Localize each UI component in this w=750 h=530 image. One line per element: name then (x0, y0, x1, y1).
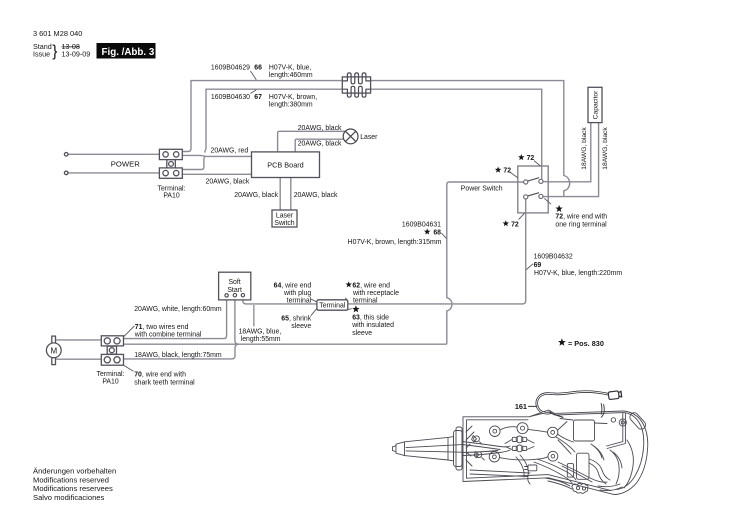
svg-text:Fig. /Abb. 3: Fig. /Abb. 3 (102, 47, 155, 58)
svg-text:PA10: PA10 (102, 378, 119, 385)
svg-text:with plug: with plug (283, 290, 311, 297)
tool small armature hatch (466, 426, 474, 466)
svg-text:Issue: Issue (33, 50, 50, 59)
svg-text:H07V-K, brown,: H07V-K, brown, (269, 94, 317, 101)
svg-text:with combine terminal: with combine terminal (134, 332, 202, 339)
svg-text:sleeve: sleeve (352, 330, 372, 337)
svg-text:Start: Start (227, 287, 242, 294)
svg-text:Terminal: Terminal (319, 302, 346, 309)
leader 72 ring (544, 198, 551, 204)
svg-text:H07V-K, brown, length:315mm: H07V-K, brown, length:315mm (348, 239, 442, 246)
svg-text:Soft: Soft (228, 279, 240, 286)
leader 63 (348, 309, 352, 310)
PCB board box (252, 152, 320, 178)
svg-text:70, wire end with: 70, wire end with (134, 372, 186, 379)
svg-text:20AWG, black: 20AWG, black (294, 192, 338, 199)
leader 70 (124, 365, 134, 371)
wire brown 380mm inner loop (205, 89, 542, 179)
tool nose cone (405, 437, 454, 461)
supply cable 161 (515, 391, 622, 418)
wire 20AWG white motor to soft start (124, 297, 227, 338)
motor PA10 middle (107, 346, 116, 354)
tool wire squiggles (556, 437, 575, 454)
tool boss top-right (548, 427, 558, 437)
svg-text:64, wire end: 64, wire end (274, 282, 312, 289)
wire PCB to laser switch right (290, 178, 292, 211)
leader 66 (251, 71, 257, 80)
svg-text:68: 68 (433, 230, 441, 237)
svg-text:20AWG, white, length:60mm: 20AWG, white, length:60mm (134, 306, 222, 313)
cable hook inside body (601, 404, 604, 418)
svg-text:H07V-K, blue,: H07V-K, blue, (269, 65, 312, 72)
leader 68 (442, 233, 447, 239)
svg-text:Modifications reserved: Modifications reserved (33, 475, 109, 484)
svg-text:67: 67 (254, 94, 262, 101)
tool boss bottom-left (489, 452, 499, 462)
tool interior compartment (560, 413, 625, 449)
svg-text:PA10: PA10 (163, 193, 180, 200)
label 72 ring terminal (555, 205, 562, 212)
tool small plug (528, 465, 537, 471)
svg-text:20AWG, black: 20AWG, black (234, 192, 278, 199)
svg-text:Salvo modificaciones: Salvo modificaciones (33, 493, 105, 502)
motor PA10 block1 (101, 336, 123, 346)
label 62 receptacle (345, 281, 351, 287)
wire PCB to laser second (295, 139, 344, 152)
capacitor box (588, 87, 602, 122)
svg-text:length:55mm: length:55mm (241, 336, 281, 343)
svg-text:18AWG, blue,: 18AWG, blue, (239, 329, 282, 336)
svg-text:1609B04632: 1609B04632 (534, 254, 573, 261)
tool link bands (500, 422, 574, 460)
svg-text:Terminal:: Terminal: (158, 185, 186, 192)
leader 72 bottom (519, 213, 525, 219)
svg-text:20AWG, black: 20AWG, black (206, 179, 250, 186)
svg-text:72: 72 (527, 155, 535, 162)
svg-text:20AWG, red: 20AWG, red (211, 148, 249, 155)
wire bundle trunk to brown riser (124, 343, 447, 345)
leader 62 (345, 298, 348, 301)
leader 69 (526, 264, 533, 270)
svg-text:1609B04629: 1609B04629 (211, 65, 250, 72)
svg-text:with receptacle: with receptacle (352, 290, 399, 297)
leader 71 (124, 326, 135, 337)
leader 72 top (534, 161, 541, 167)
svg-text:Laser: Laser (360, 134, 378, 141)
label star 72 left (495, 167, 501, 173)
svg-text:18AWG, black: 18AWG, black (581, 127, 588, 170)
motor circle (46, 343, 61, 358)
svg-text:161: 161 (515, 402, 527, 411)
svg-text:Power Switch: Power Switch (461, 185, 503, 192)
laser lamp (343, 129, 358, 144)
svg-text:1609B04631: 1609B04631 (402, 221, 441, 228)
wire blue 220mm soft start pin3 to terminal to switch (243, 199, 526, 304)
wire 20AWG red with bundle brace (182, 155, 251, 156)
svg-text:M: M (50, 346, 57, 355)
wire brown riser with hop (447, 182, 518, 344)
wire PCB to laser top (278, 131, 346, 152)
leader 65 (311, 309, 317, 316)
label star pos 830 (558, 338, 566, 345)
tool rear arcs (613, 411, 648, 495)
wire power lead top (68, 153, 159, 155)
tool cord grip capsule (628, 411, 647, 431)
leader 64 (311, 299, 317, 302)
svg-text:one ring terminal: one ring terminal (555, 221, 607, 228)
svg-text:20AWG, black: 20AWG, black (298, 141, 342, 148)
svg-text:terminal: terminal (287, 297, 312, 304)
power switch box (518, 166, 548, 213)
figure label box (97, 43, 156, 59)
tool flange (454, 431, 463, 467)
label star 72 top (518, 154, 524, 160)
svg-text:71, two wires end: 71, two wires end (135, 324, 189, 331)
terminal box mid (317, 300, 348, 310)
svg-text:POWER: POWER (111, 159, 140, 168)
svg-text:Modifications reservees: Modifications reservees (33, 484, 113, 493)
svg-text:shark teeth terminal: shark teeth terminal (134, 379, 195, 386)
terminal PA10 power block1 (159, 149, 182, 159)
svg-text:63, this side: 63, this side (352, 314, 389, 321)
tool armature band (406, 442, 510, 456)
svg-text:18AWG, black, length:75mm: 18AWG, black, length:75mm (134, 352, 222, 359)
tool boss top-mid (517, 423, 528, 434)
svg-text:1609B04630: 1609B04630 (211, 94, 250, 101)
terminal PA10 power block2 (159, 168, 182, 178)
svg-text:62, wire end: 62, wire end (352, 282, 390, 289)
svg-text:terminal: terminal (353, 297, 378, 304)
svg-text:PCB Board: PCB Board (267, 160, 304, 169)
leader 67 (251, 90, 257, 94)
svg-text:H07V-K, blue, length:220mm: H07V-K, blue, length:220mm (534, 270, 622, 277)
wire 18AWG black 75mm from motor block2 (124, 344, 239, 359)
leader 18AWG blue 55mm (253, 305, 255, 326)
svg-text:13-09-09: 13-09-09 (62, 50, 91, 59)
svg-text:length:460mm: length:460mm (269, 72, 313, 79)
svg-text:65, shrink: 65, shrink (281, 315, 311, 322)
svg-text:length:380mm: length:380mm (269, 102, 313, 109)
svg-text:72: 72 (511, 221, 519, 228)
tool boss top-left (490, 426, 501, 437)
ferrite connector body (342, 77, 370, 93)
svg-text:Änderungen vorbehalten: Änderungen vorbehalten (33, 467, 116, 476)
wire motor lead top (56, 339, 102, 341)
svg-text:72: 72 (503, 168, 511, 175)
tool screw flag left2 (476, 452, 482, 458)
svg-text:69: 69 (534, 262, 542, 269)
svg-text:}: } (52, 43, 57, 60)
wire soft start pin2 drop (235, 297, 239, 344)
tool spindle tip (393, 442, 405, 456)
svg-text:Laser: Laser (276, 212, 294, 219)
svg-text:with insulated: with insulated (351, 322, 394, 329)
tool brush cluster (512, 437, 517, 441)
svg-text:= Pos. 830: = Pos. 830 (568, 339, 604, 348)
wire 20AWG black lower to PCB (182, 173, 251, 175)
motor PA10 block2 (101, 354, 123, 365)
svg-text:Capacitor: Capacitor (592, 90, 599, 119)
tool rear screw rings (611, 418, 615, 422)
svg-text:sleeve: sleeve (291, 323, 311, 330)
svg-text:72, wire end with: 72, wire end with (555, 214, 607, 221)
ferrite winding top (343, 73, 370, 97)
svg-text:66: 66 (254, 65, 262, 72)
leader 72 left (510, 172, 517, 177)
tool field block (574, 420, 595, 441)
cable connector (608, 391, 622, 400)
wire motor lead bottom (56, 358, 102, 360)
tool housing outline (463, 410, 624, 494)
tool screw flag left1 (474, 436, 480, 442)
ferrite winding bottom (343, 86, 370, 97)
tool housing inner wall (467, 420, 612, 491)
power switch internals (518, 166, 549, 213)
svg-text:18AWG, black: 18AWG, black (602, 127, 609, 170)
motor stub top (52, 336, 56, 343)
label 63 insulated sleeve (352, 305, 359, 312)
wire capacitor lead right (543, 123, 599, 197)
wire blue 460mm outer loop (183, 81, 570, 197)
svg-text:20AWG, black: 20AWG, black (298, 125, 342, 132)
svg-text:3 601 M28 040: 3 601 M28 040 (33, 29, 82, 38)
label star 72 bottom (503, 220, 509, 226)
soft start box (219, 272, 251, 300)
laser switch box (272, 210, 297, 227)
svg-text:Terminal:: Terminal: (97, 371, 125, 378)
motor stub bottom (52, 357, 56, 364)
wire power lead bottom (68, 172, 160, 174)
wire capacitor lead left (548, 123, 591, 182)
svg-text:Switch: Switch (274, 220, 294, 227)
power lead open terminal top (64, 153, 68, 157)
wire PCB to laser switch left (279, 178, 281, 211)
terminal PA10 power middle (167, 160, 176, 168)
tool bottom cluster (572, 483, 588, 493)
tool lower block (577, 453, 590, 479)
power lead open terminal bottom (64, 171, 68, 175)
tool boss bottom-right (548, 451, 558, 461)
